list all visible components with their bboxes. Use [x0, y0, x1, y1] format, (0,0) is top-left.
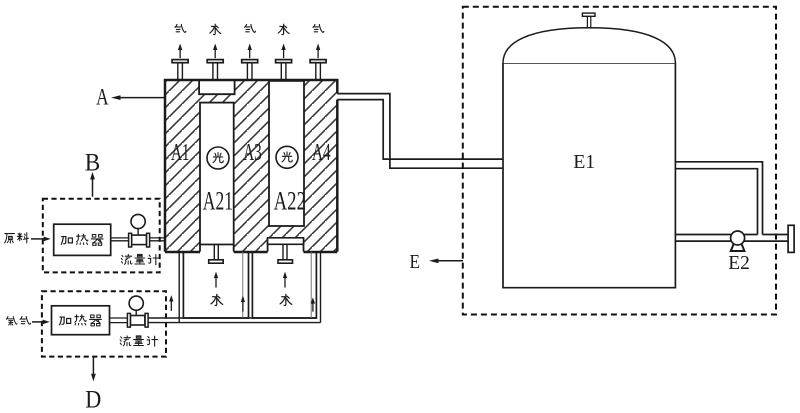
transfer pipe reactor to tank E1 [337, 94, 503, 169]
flow arrow tank2 center [284, 277, 286, 288]
svg-text:E: E [410, 251, 421, 273]
svg-text:E1: E1 [573, 151, 595, 173]
reactor outer border [165, 80, 337, 252]
heater box 2 [52, 306, 110, 335]
upper right pipe from E1 [675, 162, 762, 235]
dashed box 1 (feed heater unit) [43, 199, 160, 273]
dashed box E [463, 7, 776, 315]
water tank 1 [183, 252, 248, 318]
svg-text:A3: A3 [243, 140, 262, 166]
svg-text:D: D [85, 387, 101, 413]
svg-text:A4: A4 [312, 140, 331, 166]
water jacket walls [179, 252, 320, 323]
top pipe 4 (water) [276, 24, 292, 80]
thin partition tank1 [242, 252, 244, 318]
lamp circle 1 [207, 147, 229, 169]
svg-text:A21: A21 [203, 187, 233, 216]
label 氯气 + arrow [6, 316, 17, 325]
svg-text:A: A [96, 85, 109, 110]
water label tank1 [211, 294, 223, 305]
top pipe 3 (gas) [242, 24, 258, 80]
thin partition tank2 [310, 252, 312, 318]
chamber A22 [269, 81, 304, 226]
svg-text:A22: A22 [274, 187, 306, 216]
top pipe 5 (gas) [310, 24, 326, 80]
label 流量计 (1) [121, 254, 132, 264]
label 原料 + arrow [5, 234, 15, 243]
heater box 1 [54, 224, 111, 255]
svg-text:A1: A1 [171, 140, 190, 166]
pump E2 [731, 231, 745, 251]
flow meter 2 [127, 296, 148, 327]
dip pipe + flange under A21 [214, 245, 218, 260]
vent valve on dome [587, 16, 590, 28]
tank E1 dome [503, 28, 675, 63]
bottom supply pipe (from meter 2 to jacket) [148, 318, 320, 323]
reactor body hatched block [165, 80, 337, 252]
flow arrow tank1 center [215, 277, 217, 288]
arrow A [96, 85, 165, 110]
chamber A21 [200, 103, 234, 254]
bottom notch below A22 [268, 238, 304, 254]
label 流量计 (2) [120, 336, 131, 346]
flow arrow tank2 right [312, 303, 314, 312]
pump pipe lower right [675, 235, 788, 242]
top pipe 2 (water) [207, 24, 223, 80]
flow arrow tank1 right [242, 301, 244, 312]
end flange [788, 225, 794, 252]
top notch above chamber A21 [199, 80, 235, 94]
arrow E [410, 251, 463, 273]
svg-text:E2: E2 [728, 252, 750, 274]
arrow D [85, 357, 101, 413]
tank E1 body [503, 63, 675, 288]
dip pipe + flange under A22 [283, 244, 287, 259]
lamp circle 2 [276, 146, 298, 168]
flow meter 2 pipes [110, 318, 128, 323]
flow arrow left of jacket [170, 301, 172, 311]
water tank 2 [252, 252, 316, 318]
dashed box 2 (chlorine heater unit) [42, 291, 166, 356]
arrow B [85, 150, 101, 197]
water label tank2 [280, 294, 292, 305]
flow meter 1 [129, 214, 150, 247]
flow meter 1 pipes [111, 238, 166, 241]
svg-text:B: B [85, 150, 101, 177]
top pipe 1 (gas) [172, 24, 188, 80]
